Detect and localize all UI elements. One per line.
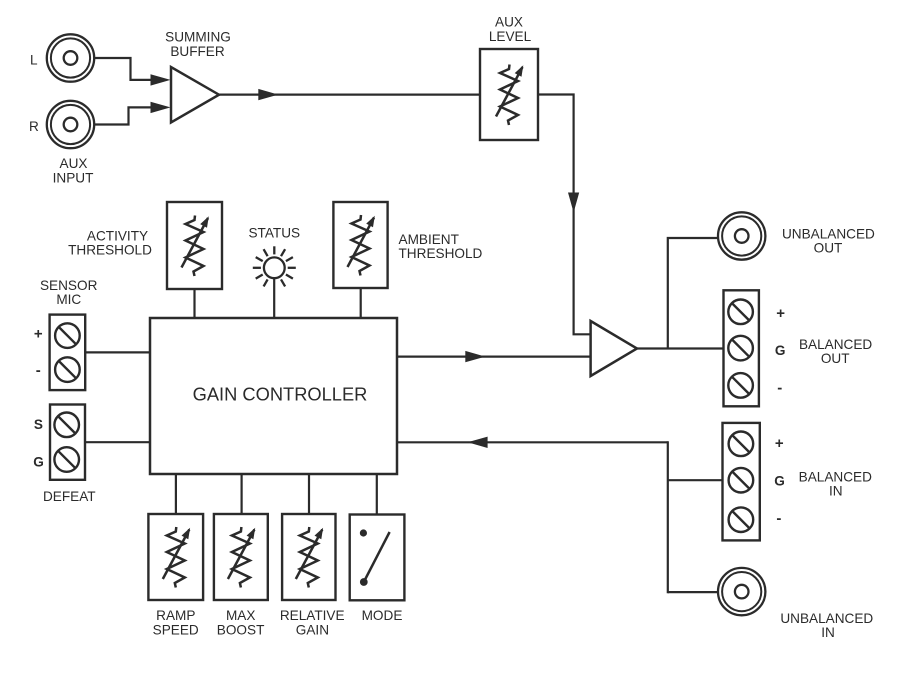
svg-text:SUMMING: SUMMING: [165, 30, 231, 45]
svg-text:+: +: [775, 435, 784, 452]
svg-text:THRESHOLD: THRESHOLD: [399, 246, 483, 261]
svg-text:OUT: OUT: [814, 241, 843, 256]
svg-text:MODE: MODE: [362, 608, 403, 623]
svg-text:AUX: AUX: [60, 156, 88, 171]
svg-text:GAIN: GAIN: [296, 622, 329, 637]
svg-text:GAIN CONTROLLER: GAIN CONTROLLER: [193, 383, 368, 404]
svg-text:IN: IN: [821, 625, 835, 640]
svg-text:MIC: MIC: [56, 292, 81, 307]
svg-text:AUX: AUX: [495, 15, 523, 30]
svg-text:+: +: [776, 305, 785, 322]
svg-text:THRESHOLD: THRESHOLD: [68, 242, 152, 257]
svg-text:OUT: OUT: [821, 351, 850, 366]
svg-text:G: G: [775, 343, 786, 358]
svg-text:G: G: [33, 455, 44, 470]
svg-text:IN: IN: [829, 484, 843, 499]
svg-text:ACTIVITY: ACTIVITY: [87, 228, 148, 243]
svg-text:UNBALANCED: UNBALANCED: [780, 611, 873, 626]
svg-text:UNBALANCED: UNBALANCED: [782, 227, 875, 242]
svg-text:BALANCED: BALANCED: [799, 469, 872, 484]
svg-text:INPUT: INPUT: [53, 170, 94, 185]
svg-text:MAX: MAX: [226, 608, 255, 623]
svg-text:STATUS: STATUS: [248, 226, 300, 241]
svg-text:-: -: [776, 510, 781, 527]
svg-text:+: +: [34, 326, 43, 343]
svg-text:BOOST: BOOST: [217, 622, 265, 637]
svg-text:LEVEL: LEVEL: [489, 29, 532, 44]
svg-text:DEFEAT: DEFEAT: [43, 489, 96, 504]
svg-text:SPEED: SPEED: [153, 622, 199, 637]
svg-text:RAMP: RAMP: [156, 608, 195, 623]
svg-text:RELATIVE: RELATIVE: [280, 608, 345, 623]
svg-text:BUFFER: BUFFER: [170, 44, 225, 59]
svg-text:SENSOR: SENSOR: [40, 278, 98, 293]
svg-text:L: L: [30, 53, 38, 68]
svg-text:R: R: [29, 119, 39, 134]
svg-text:-: -: [36, 362, 41, 379]
svg-text:G: G: [774, 474, 785, 489]
svg-text:S: S: [34, 417, 43, 432]
svg-text:-: -: [777, 380, 782, 397]
